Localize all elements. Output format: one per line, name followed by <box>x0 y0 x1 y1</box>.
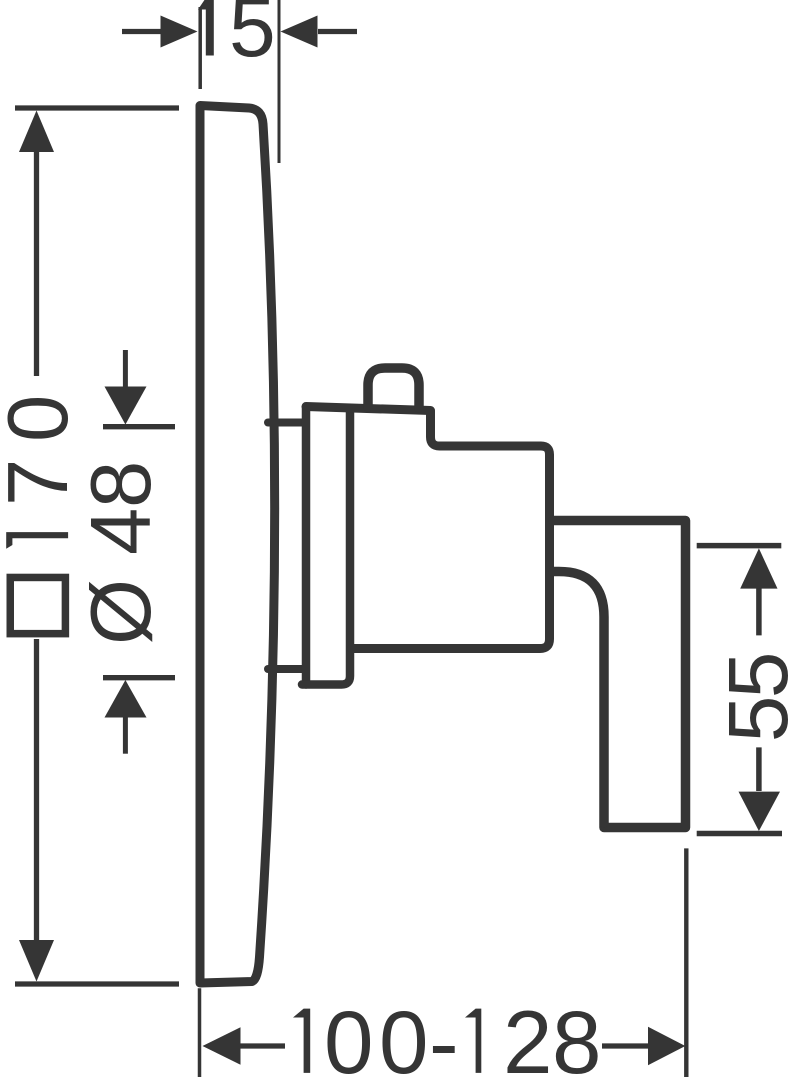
svg-text:00-28: 00-28 <box>324 992 602 1077</box>
svg-text:5: 5 <box>229 0 276 74</box>
svg-text:55: 55 <box>711 651 788 742</box>
svg-text:Ø48: Ø48 <box>74 461 169 645</box>
